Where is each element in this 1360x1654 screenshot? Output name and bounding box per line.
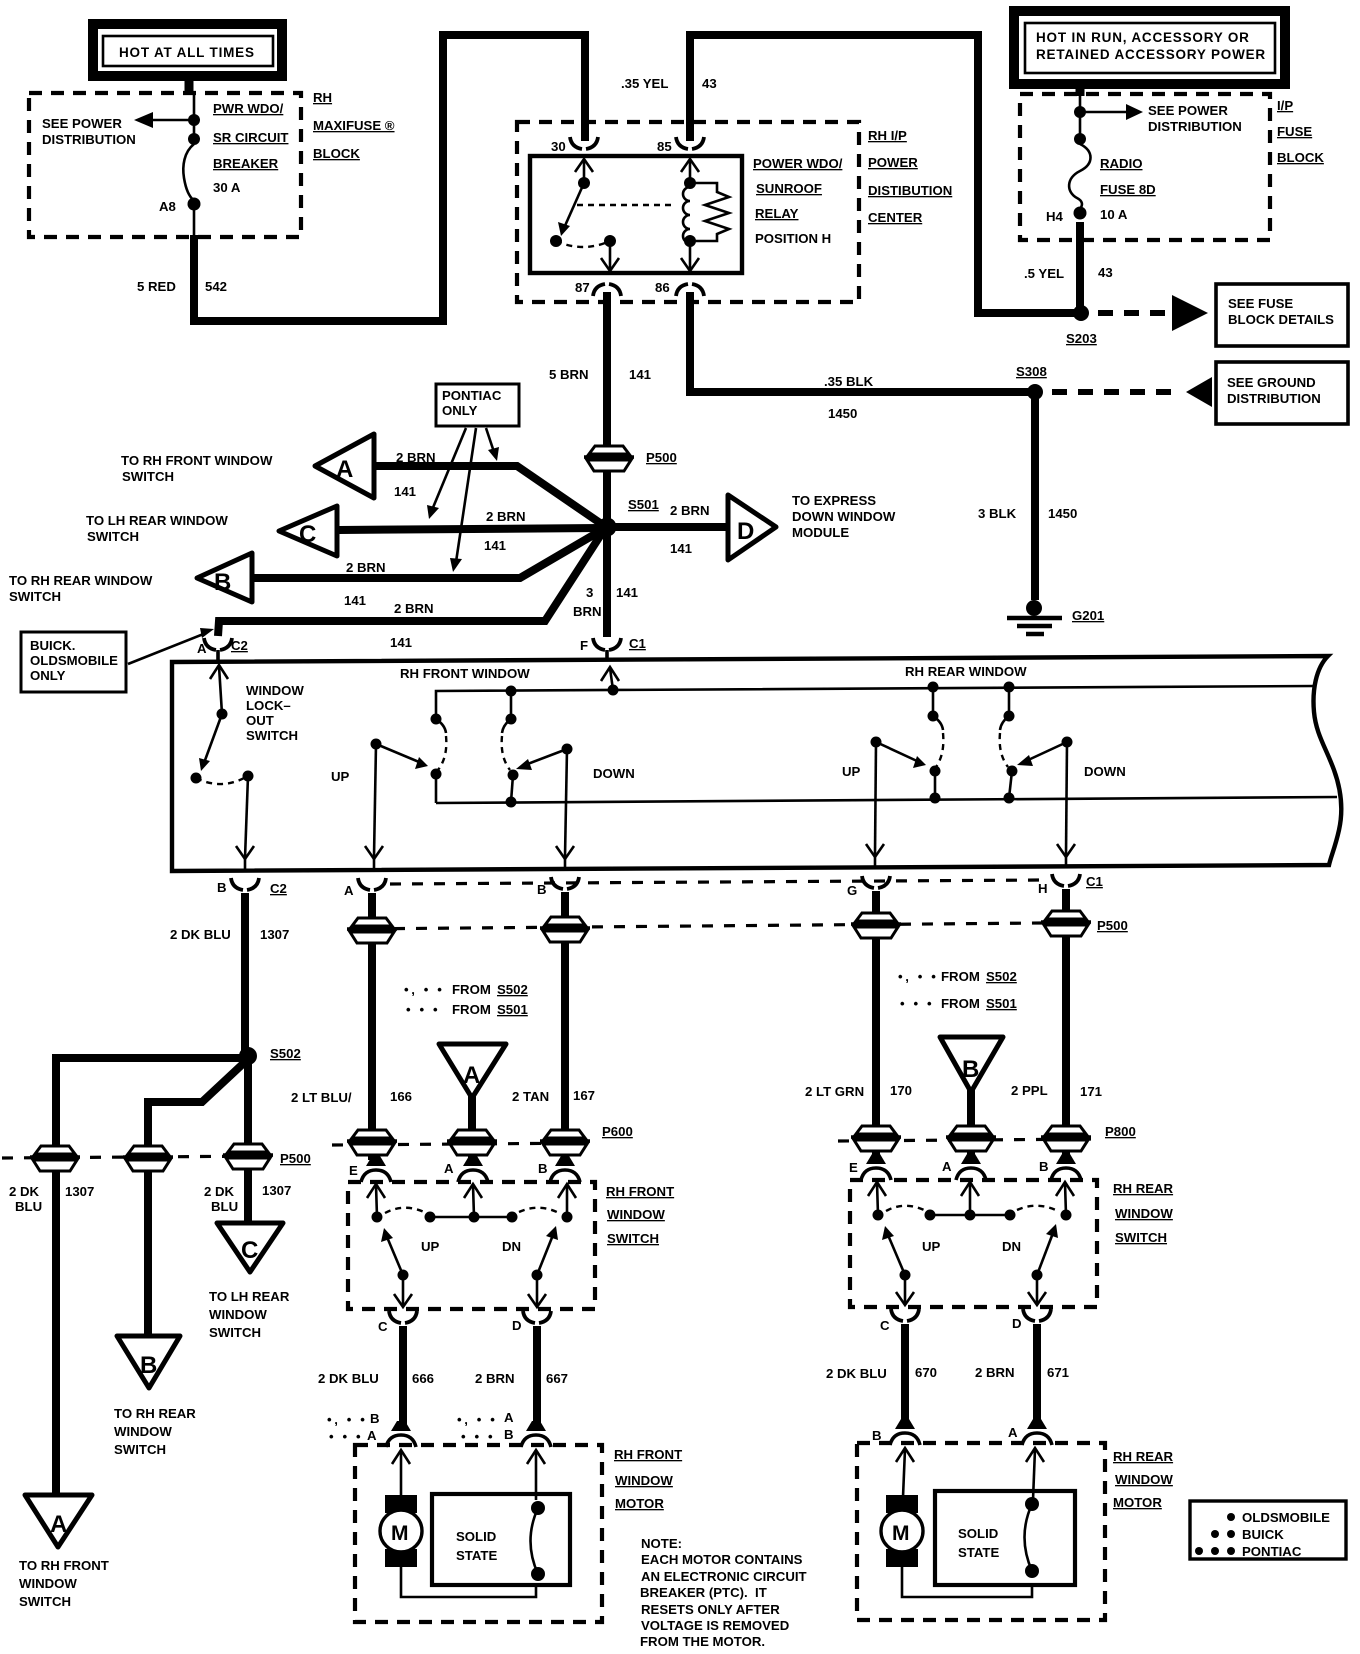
legend FROM S502 / FROM S501 (right) [898, 969, 1017, 984]
label 2 BRN 141 (wire D) [670, 503, 710, 556]
connector P500 lens on wire B [540, 917, 590, 942]
svg-text:B: B [1039, 1159, 1049, 1174]
connector C2 pin B [217, 878, 287, 896]
connector pin (rear motor left) [890, 1419, 920, 1445]
svg-text:.5 YEL: .5 YEL [1024, 266, 1064, 281]
svg-text:WINDOW: WINDOW [19, 1576, 77, 1591]
switch bus wire lower [436, 797, 1337, 803]
label PWR WDO/ SR CIRCUIT BREAKER 30 A [213, 101, 288, 195]
svg-text:2 PPL: 2 PPL [1011, 1083, 1048, 1098]
wire inside maxifuse block [193, 93, 196, 143]
svg-text:•, • •: •, • • [404, 982, 444, 997]
connector C to LH rear window switch [279, 506, 337, 556]
connector P800 lens B [1041, 1124, 1136, 1151]
svg-text:S203: S203 [1066, 331, 1097, 346]
connector C1 pin G [847, 876, 890, 898]
svg-text:RESETS ONLY AFTER: RESETS ONLY AFTER [641, 1602, 780, 1617]
connector P600 pin E [349, 1156, 391, 1182]
svg-text:MODULE: MODULE [792, 525, 849, 540]
svg-text:F: F [580, 638, 588, 653]
svg-text:1450: 1450 [1048, 506, 1077, 521]
front switch pin E arrow [367, 1184, 385, 1217]
svg-text:RADIO: RADIO [1100, 156, 1143, 171]
svg-text:RH FRONT WINDOW: RH FRONT WINDOW [400, 666, 530, 681]
svg-text:1307: 1307 [65, 1184, 94, 1199]
svg-text:B: B [962, 1056, 979, 1083]
lockout switch arrow to pin A [210, 665, 228, 714]
rear switch pin E arrow [868, 1182, 886, 1215]
svg-text:2 BRN: 2 BRN [396, 450, 436, 465]
relay NO contact to pin 87 [601, 235, 619, 271]
connector P600 pin B [538, 1156, 580, 1182]
svg-text:171: 171 [1080, 1084, 1102, 1099]
rear switch dashed link left [886, 1206, 924, 1211]
RH REAR WINDOW SWITCH dashed box [850, 1180, 1097, 1307]
wire 2 LT GRN 170 down from pin G [872, 891, 880, 1158]
RH rear window switch contacts in master assembly [928, 682, 1018, 804]
svg-text:DN: DN [1002, 1239, 1021, 1254]
terminal A8 [188, 198, 201, 211]
svg-text:M: M [892, 1522, 910, 1545]
pontiac arrow to wire C [427, 428, 466, 519]
front switch pin A arrow [464, 1184, 482, 1217]
svg-text:RETAINED ACCESSORY POWER: RETAINED ACCESSORY POWER [1036, 47, 1266, 62]
node junction upper [188, 114, 200, 126]
svg-text:WINDOW: WINDOW [1115, 1472, 1173, 1487]
svg-text:G201: G201 [1072, 608, 1104, 623]
svg-text:A: A [463, 1062, 480, 1089]
svg-text:A: A [336, 456, 353, 483]
dashed wire from S203 to fuse block details [1098, 310, 1166, 316]
svg-text:UP: UP [331, 769, 350, 784]
rear switch DN arm [1032, 1224, 1059, 1281]
svg-text:SWITCH: SWITCH [19, 1594, 71, 1609]
splice S501 [598, 497, 659, 537]
wire inside fuse block [1079, 94, 1082, 145]
svg-text:2 DK BLU: 2 DK BLU [170, 927, 231, 942]
front switch contact E [372, 1212, 383, 1223]
svg-text:BREAKER (PTC). IT: BREAKER (PTC). IT [640, 1585, 767, 1600]
label 2 BRN 671 [975, 1365, 1069, 1380]
svg-text:BLU: BLU [211, 1199, 238, 1214]
wire 2 DK BLU 670 [901, 1324, 909, 1428]
connector pin D (rear) [1012, 1309, 1051, 1331]
svg-text:STATE: STATE [456, 1548, 497, 1563]
relay common contact arrow from pin 30 [575, 159, 593, 189]
connector P500 lens on wire G [851, 913, 901, 938]
svg-text:SEE POWER: SEE POWER [42, 116, 122, 131]
front motor input arrows [392, 1450, 545, 1500]
lockout switch contact left [191, 773, 202, 784]
svg-text:BRN: BRN [573, 604, 602, 619]
lockout switch arm [199, 714, 222, 771]
rear UP actuator and output to pin G [866, 737, 926, 867]
svg-text:EACH MOTOR CONTAINS: EACH MOTOR CONTAINS [641, 1552, 803, 1567]
svg-text:141: 141 [629, 367, 651, 382]
svg-text:542: 542 [205, 279, 227, 294]
arrow to SEE POWER DISTRIBUTION (fuse block) [1084, 104, 1143, 120]
master window switch assembly box [172, 656, 1341, 871]
svg-text:.35 YEL: .35 YEL [621, 76, 668, 91]
svg-text:30: 30 [551, 139, 566, 154]
legend FROM S502 / FROM S501 (left) [404, 982, 528, 997]
wire 3 BLK 1450 from S308 to G201 [1031, 396, 1039, 600]
svg-text:2 LT BLU/: 2 LT BLU/ [291, 1090, 352, 1105]
label 2 TAN 167 [512, 1088, 595, 1104]
svg-text:PONTIAC: PONTIAC [442, 388, 502, 403]
svg-text:B: B [140, 1352, 157, 1379]
label TO RH REAR WINDOW SWITCH [9, 573, 153, 604]
svg-text:667: 667 [546, 1371, 568, 1386]
label TO RH FRONT WINDOW SWITCH (down) [19, 1558, 109, 1609]
label 5 BRN 141 [549, 367, 651, 382]
connector A (pontiac) into front switch [439, 1044, 506, 1098]
svg-text:SWITCH: SWITCH [122, 469, 174, 484]
svg-text:B: B [370, 1411, 380, 1426]
wire 5 BRN 141 from relay pin 87 [603, 292, 611, 637]
connector P500 lens middle [123, 1146, 173, 1171]
svg-text:S502: S502 [270, 1046, 301, 1061]
relay K1 POWER WDO/SUNROOF RELAY dashed box (RH I/P power distribution center) [517, 122, 859, 302]
RH REAR WINDOW MOTOR dashed box [857, 1443, 1105, 1620]
svg-text:2 BRN: 2 BRN [670, 503, 710, 518]
connector pin (front motor left) [386, 1421, 416, 1447]
connector C1 pin B [537, 877, 579, 897]
svg-text:A: A [504, 1410, 514, 1425]
svg-text:RH I/P: RH I/P [868, 128, 907, 143]
connector C1 pin F [580, 636, 646, 661]
svg-text:WINDOW: WINDOW [114, 1424, 172, 1439]
svg-text:BLOCK DETAILS: BLOCK DETAILS [1228, 312, 1334, 327]
svg-text:SEE FUSE: SEE FUSE [1228, 296, 1293, 311]
connector P500 lens left [30, 1146, 80, 1171]
svg-text:PWR WDO/: PWR WDO/ [213, 101, 284, 116]
connector P600 lens E [347, 1130, 397, 1155]
label 2 LT BLU/ 166 [291, 1089, 412, 1105]
arrow to SEE GROUND DISTRIBUTION [1186, 377, 1212, 407]
relay pin 85 [657, 137, 704, 154]
svg-text:BUICK: BUICK [1242, 1527, 1284, 1542]
circuit breaker PWR WDO/SR 30A [183, 144, 194, 201]
connector B to RH rear window switch [197, 553, 252, 602]
connector P600 lens B [540, 1124, 633, 1155]
relay actuator dashed line [577, 204, 672, 206]
lockout output wire to pin B [236, 776, 254, 869]
svg-text:RH: RH [313, 90, 332, 105]
front UP actuator and output to pin A [365, 739, 428, 870]
svg-text:85: 85 [657, 139, 672, 154]
svg-text:A: A [367, 1428, 377, 1443]
label RH FRONT WINDOW SWITCH [606, 1184, 674, 1246]
terminal H4 [1074, 207, 1087, 220]
svg-text:DISTIBUTION: DISTIBUTION [868, 183, 952, 198]
svg-text:2 BRN: 2 BRN [394, 601, 434, 616]
svg-text:87: 87 [575, 280, 590, 295]
label 2 BRN 141 (wire A) [394, 450, 436, 499]
svg-text:RH FRONT: RH FRONT [606, 1184, 674, 1199]
svg-text:M: M [391, 1522, 409, 1545]
connector P800 lens E [851, 1126, 901, 1151]
svg-text:WINDOW: WINDOW [615, 1473, 673, 1488]
svg-text:FROM: FROM [941, 969, 980, 984]
switch bus wire upper [436, 686, 1315, 719]
wire 2 PPL 171 down from pin H [1062, 889, 1070, 1158]
connector P500 lens on wire A [347, 918, 397, 943]
wire 2 BRN 667 [533, 1326, 541, 1431]
splice S502 [239, 1046, 301, 1065]
wire stub from HOT IN RUN box [1076, 88, 1085, 96]
label 2 DK BLU 1307 (left) [9, 1184, 94, 1214]
svg-text:FUSE 8D: FUSE 8D [1100, 182, 1156, 197]
svg-text:• • •: • • • [406, 1002, 440, 1017]
svg-text:FROM: FROM [941, 996, 980, 1011]
label 2 BRN 141 (wire C) [484, 509, 526, 553]
svg-text:SWITCH: SWITCH [607, 1231, 659, 1246]
wire from connector A to P600 [468, 1096, 476, 1158]
lockout switch contact right [243, 771, 254, 782]
svg-text:A: A [1008, 1425, 1018, 1440]
svg-text:2 BRN: 2 BRN [975, 1365, 1015, 1380]
svg-text:C: C [299, 521, 316, 548]
PONTIAC ONLY box [436, 384, 519, 426]
label RH REAR WINDOW SWITCH [1113, 1181, 1174, 1245]
svg-text:WINDOW: WINDOW [1115, 1206, 1173, 1221]
svg-text:141: 141 [394, 484, 416, 499]
fuse RADIO FUSE 8D 10A [1069, 144, 1090, 209]
motor M (rear) [881, 1495, 923, 1567]
svg-text:3 BLK: 3 BLK [978, 506, 1017, 521]
wire 2 TAN 167 down from pin B [561, 892, 569, 1160]
svg-text:2 TAN: 2 TAN [512, 1089, 549, 1104]
relay dashed link to NO contact [556, 241, 610, 247]
connector D to express down window module [728, 495, 776, 560]
svg-text:SEE GROUND: SEE GROUND [1227, 375, 1316, 390]
svg-text:B: B [872, 1428, 882, 1443]
svg-text:DOWN WINDOW: DOWN WINDOW [792, 509, 896, 524]
label TO RH REAR WINDOW SWITCH (down) [114, 1406, 196, 1457]
svg-text:G: G [847, 883, 857, 898]
relay NC contact [550, 235, 562, 247]
svg-text:DN: DN [502, 1239, 521, 1254]
dot code A/B (front right wire) [457, 1410, 514, 1444]
wire .5 YEL 43 from fuse to S203 [1076, 222, 1084, 313]
connector P800 lens A [946, 1126, 996, 1151]
rear switch UP arm [882, 1226, 911, 1281]
svg-text:SEE POWER: SEE POWER [1148, 103, 1228, 118]
svg-text:I/P: I/P [1277, 98, 1293, 113]
connector pin (front motor right) [521, 1421, 551, 1447]
BUICK OLDSMOBILE ONLY box [21, 632, 126, 692]
relay coil parallel resistor [694, 183, 729, 241]
svg-text:1307: 1307 [260, 927, 289, 942]
connector P600 lens A [447, 1130, 497, 1155]
svg-text:TO EXPRESS: TO EXPRESS [792, 493, 876, 508]
svg-text:C: C [378, 1319, 388, 1334]
svg-text:H4: H4 [1046, 209, 1064, 224]
svg-text:A: A [50, 1511, 67, 1538]
relay coil [683, 187, 690, 243]
SEE GROUND DISTRIBUTION box [1216, 362, 1348, 424]
wire from S502 left branch to connector A [56, 1058, 246, 1495]
label 2 BRN 667 [475, 1371, 568, 1386]
svg-text:SUNROOF: SUNROOF [756, 181, 822, 196]
svg-text:HOT AT ALL TIMES: HOT AT ALL TIMES [119, 45, 255, 60]
svg-text:BLOCK: BLOCK [313, 146, 360, 161]
svg-text:SR CIRCUIT: SR CIRCUIT [213, 130, 288, 145]
arrow to SEE POWER DISTRIBUTION [134, 112, 190, 128]
label I/P FUSE BLOCK [1277, 98, 1324, 165]
svg-text:P500: P500 [646, 450, 677, 465]
label WINDOW LOCK-OUT SWITCH [246, 683, 304, 743]
svg-text:BUICK.: BUICK. [30, 638, 75, 653]
svg-text:RELAY: RELAY [755, 206, 799, 221]
motor M (front) [380, 1495, 422, 1567]
label RH REAR WINDOW MOTOR [1113, 1449, 1174, 1510]
relay switch arm [558, 183, 584, 236]
svg-text:• • •: • • • [329, 1429, 363, 1444]
svg-text:S501: S501 [628, 497, 659, 512]
svg-text:141: 141 [390, 635, 412, 650]
svg-text:SWITCH: SWITCH [209, 1325, 261, 1340]
svg-text:167: 167 [573, 1088, 595, 1103]
svg-text:SOLID: SOLID [958, 1526, 998, 1541]
connector B (pontiac) into rear switch [940, 1037, 1003, 1092]
connector C1 pin A [344, 878, 386, 898]
svg-text:2 DK: 2 DK [204, 1184, 235, 1199]
connector pin (rear motor right) [1022, 1419, 1052, 1445]
svg-text:D: D [1012, 1316, 1022, 1331]
connector P500 dashed row (left) [2, 1156, 268, 1158]
relay pin 87 [575, 280, 621, 296]
pontiac arrow to wire B [450, 428, 476, 572]
connector C1 dashed row [390, 880, 1044, 884]
label 2 LT GRN 170 [805, 1083, 912, 1099]
label SEE POWER DISTRIBUTION [42, 116, 136, 147]
svg-text:• • •: • • • [461, 1429, 495, 1444]
connector P500 lens on wire H [1041, 911, 1128, 936]
rear switch output C [896, 1275, 914, 1305]
rear switch contact bar [925, 1210, 1016, 1221]
svg-text:A: A [444, 1161, 454, 1176]
rear switch contact E [873, 1210, 884, 1221]
svg-text:TO RH REAR: TO RH REAR [114, 1406, 196, 1421]
svg-text:BLU: BLU [15, 1199, 42, 1214]
svg-text:POWER WDO/: POWER WDO/ [753, 156, 843, 171]
svg-text:S308: S308 [1016, 364, 1047, 379]
svg-text:5 BRN: 5 BRN [549, 367, 589, 382]
svg-text:ONLY: ONLY [442, 403, 478, 418]
label 2 PPL 171 [1011, 1083, 1102, 1099]
svg-text:C2: C2 [270, 881, 287, 896]
svg-text:E: E [349, 1163, 358, 1178]
svg-text:MAXIFUSE ®: MAXIFUSE ® [313, 118, 395, 133]
buick arrow to C2 wire [128, 628, 214, 664]
svg-text:A: A [197, 641, 207, 656]
front switch contact bar [425, 1212, 518, 1223]
svg-text:B: B [538, 1161, 548, 1176]
svg-text:DISTRIBUTION: DISTRIBUTION [1227, 391, 1321, 406]
svg-text:5 RED: 5 RED [137, 279, 176, 294]
svg-text:SWITCH: SWITCH [9, 589, 61, 604]
lockout dashed link [196, 776, 248, 784]
svg-text:2 BRN: 2 BRN [486, 509, 526, 524]
RH FRONT WINDOW MOTOR dashed box [355, 1445, 602, 1622]
connector pin D (front) [512, 1311, 551, 1333]
svg-text:A: A [344, 883, 354, 898]
wire 2 BRN 141 from connector B to S501 [254, 530, 602, 578]
svg-text:C: C [880, 1318, 890, 1333]
label 2 DK BLU 1307 (right) [204, 1183, 291, 1214]
wire stub from HOT box to maxifuse block [185, 80, 194, 94]
svg-text:UP: UP [842, 764, 861, 779]
wire 2 LT BLU/ 166 down from pin A [368, 893, 376, 1160]
connector P600 pin A [444, 1156, 488, 1182]
svg-text:BREAKER: BREAKER [213, 156, 279, 171]
svg-text:HOT IN RUN, ACCESSORY OR: HOT IN RUN, ACCESSORY OR [1036, 30, 1250, 45]
front switch UP arm [381, 1228, 409, 1281]
svg-text:TO LH REAR WINDOW: TO LH REAR WINDOW [86, 513, 228, 528]
label 3 BRN 141 above C1 pin F [573, 585, 638, 619]
svg-text:FROM THE MOTOR.: FROM THE MOTOR. [640, 1634, 765, 1649]
svg-text:B: B [217, 880, 227, 895]
svg-text:MOTOR: MOTOR [1113, 1495, 1162, 1510]
svg-text:2 DK BLU: 2 DK BLU [318, 1371, 379, 1386]
connector A to RH front window switch (down) [25, 1495, 92, 1547]
svg-text:D: D [512, 1318, 522, 1333]
front switch DN arm [532, 1226, 559, 1281]
svg-text:WINDOW: WINDOW [246, 683, 304, 698]
svg-text:2 DK: 2 DK [9, 1184, 40, 1199]
svg-text:DOWN: DOWN [1084, 764, 1126, 779]
svg-text:•, • •: •, • • [457, 1412, 497, 1427]
svg-text:SOLID: SOLID [456, 1529, 496, 1544]
svg-text:•, • •: •, • • [898, 969, 938, 984]
front switch pin B arrow [558, 1184, 576, 1217]
svg-text:TO RH FRONT: TO RH FRONT [19, 1558, 109, 1573]
svg-text:141: 141 [344, 593, 366, 608]
svg-text:SWITCH: SWITCH [246, 728, 298, 743]
svg-text:2 BRN: 2 BRN [346, 560, 386, 575]
label RH I/P POWER DISTIBUTION CENTER [868, 128, 952, 225]
svg-text:1450: 1450 [828, 406, 857, 421]
wire 2 BRN 141 from C2 pin A to S501 [218, 533, 602, 636]
svg-text:STATE: STATE [958, 1545, 999, 1560]
svg-text:UP: UP [922, 1239, 941, 1254]
svg-text:C1: C1 [629, 636, 646, 651]
svg-text:670: 670 [915, 1365, 937, 1380]
label RH FRONT WINDOW MOTOR [614, 1447, 682, 1511]
wire from breaker to box edge [193, 206, 196, 237]
label TO EXPRESS DOWN WINDOW MODULE [792, 493, 896, 540]
splice S308 [1016, 364, 1047, 400]
node junction [1074, 106, 1086, 118]
relay coil lower terminal to pin 86 [681, 235, 699, 271]
label TO LH REAR WINDOW SWITCH [86, 513, 228, 544]
label .35 BLK 1450 [824, 374, 874, 421]
svg-text:P500: P500 [1097, 918, 1128, 933]
HOT IN RUN header box [1014, 11, 1285, 84]
svg-text:CENTER: CENTER [868, 210, 923, 225]
node junction lower [188, 133, 200, 145]
svg-text:OLDSMOBILE: OLDSMOBILE [30, 653, 118, 668]
label TO LH REAR WINDOW SWITCH (down) [209, 1289, 290, 1340]
relay inner case [530, 156, 742, 273]
connector pin C (rear) [880, 1309, 919, 1333]
connector P800 pin E [849, 1154, 891, 1180]
svg-text:POWER: POWER [868, 155, 918, 170]
svg-text:B: B [214, 569, 231, 596]
wire .35 YEL 43 from S203 to relay pin 85 [690, 35, 1078, 313]
